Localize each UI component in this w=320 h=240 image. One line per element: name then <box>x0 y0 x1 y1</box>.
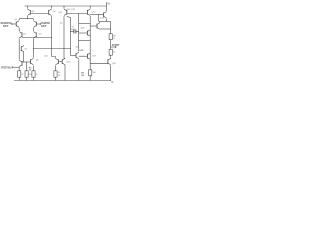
wire Q8 collector <box>27 16 29 19</box>
wire R3 to rail <box>26 77 28 81</box>
wire output to R10 <box>110 47 112 49</box>
wire C1 right lead <box>76 31 79 33</box>
label INVERTING INPUT <box>41 21 50 28</box>
wire Q16 collector column <box>78 14 80 52</box>
label OFFSET NULL <box>1 66 12 70</box>
junction dot <box>69 47 72 50</box>
wire R1 to rail <box>18 77 20 81</box>
wire Q9 collector to Q11 <box>52 57 56 59</box>
transistor Q1 <box>14 19 19 27</box>
wire Q20 base <box>90 62 108 64</box>
junction dot <box>89 5 92 8</box>
junction dot <box>25 61 28 64</box>
transistor Q11 <box>44 56 58 65</box>
resistor R3 <box>25 71 33 77</box>
wire Q20 collector <box>110 65 112 80</box>
wire Q16-Q17 link <box>79 55 88 57</box>
label V- pin <box>111 81 113 84</box>
wire R7 top <box>89 63 91 69</box>
wire Q10-Q11 base tie <box>58 61 62 63</box>
wire output lead <box>111 46 116 48</box>
svg-text:50: 50 <box>113 52 115 54</box>
resistor R1 <box>18 71 25 77</box>
junction dot <box>109 46 112 49</box>
wire Q16 base <box>71 55 77 57</box>
wire R7 to rail <box>89 76 91 81</box>
junction dot <box>77 30 80 33</box>
svg-text:INPUT: INPUT <box>3 24 8 28</box>
transistor Q7 <box>21 46 28 52</box>
junction dot <box>32 47 35 50</box>
transistor Q2 <box>34 21 37 27</box>
wire Q1 emitter <box>18 28 20 31</box>
wire Q15 collector drop <box>98 15 100 22</box>
transistor Q9 <box>49 9 57 15</box>
transistor Q18 <box>81 27 91 36</box>
wire V- rail <box>14 80 111 82</box>
wire Q18 emitter link <box>79 40 91 42</box>
label pin mark <box>60 22 63 24</box>
wire Q5 collector <box>18 59 20 61</box>
wire Q3-Q4 base <box>22 37 52 39</box>
transistor Q15 <box>97 23 100 29</box>
wire Q15 base <box>90 25 97 27</box>
wire R2 to rail <box>32 77 34 81</box>
wire Q12-Q13 base <box>67 13 88 15</box>
wire R3 top <box>26 62 28 71</box>
wire Q10 emitter <box>64 65 66 81</box>
junction dot <box>50 5 53 8</box>
svg-text:INPUT: INPUT <box>41 24 46 28</box>
wire R10 to Q20 <box>110 55 112 59</box>
junction dot <box>82 55 85 58</box>
junction dot <box>26 5 29 8</box>
wire Q2 collector <box>32 19 34 21</box>
junction dot <box>109 79 112 82</box>
wire output stage link <box>100 28 111 30</box>
resistor R2 <box>32 71 39 77</box>
transistor Q17 <box>87 53 96 59</box>
wire Q8-Q9 base <box>30 13 48 15</box>
wire Q11 emitter <box>55 66 57 71</box>
wire Q9 collector <box>51 16 53 57</box>
label C1 30pF <box>71 26 76 31</box>
wire Q18 base <box>79 32 88 34</box>
svg-text:OFFSET NULL: OFFSET NULL <box>1 66 12 70</box>
wire Q1 collector <box>18 19 20 21</box>
junction dot <box>77 39 80 42</box>
label R2 value <box>29 68 32 72</box>
wire Q5-Q6 base <box>22 61 31 63</box>
wire Q3 collector <box>18 39 20 60</box>
resistor R7 <box>89 70 97 76</box>
resistor R9 <box>109 34 115 40</box>
resistor R4 <box>54 71 61 77</box>
transistor Q10 <box>62 58 71 64</box>
transistor Q13 <box>87 9 96 15</box>
wire Q14 emitter <box>105 19 107 22</box>
wire C1 left lead <box>71 31 74 33</box>
wire Q16 emitter <box>78 59 80 80</box>
transistor Q14 <box>100 12 106 20</box>
node NON-INV input terminal <box>11 23 13 25</box>
junction dot <box>63 47 66 50</box>
label OUTPUT <box>112 43 120 47</box>
label Q12 Q13 <box>67 9 76 11</box>
node OUTPUT terminal <box>115 46 117 48</box>
wire Q10 collector <box>64 16 65 58</box>
transistor Q3 <box>19 32 26 38</box>
junction dot <box>69 30 72 33</box>
junction dot <box>22 61 25 64</box>
transistor Q6 <box>31 58 40 64</box>
svg-text:Q12 Q13: Q12 Q13 <box>67 9 76 11</box>
label V+ <box>107 3 111 6</box>
junction dot <box>77 12 80 15</box>
wire Q6 emitter <box>32 66 34 71</box>
wire Q6 collector <box>32 57 34 59</box>
junction dot <box>77 32 80 35</box>
transistor Q5 <box>19 60 22 66</box>
svg-text:(5): (5) <box>60 22 63 24</box>
junction dot <box>63 5 66 8</box>
svg-text:4.5K: 4.5K <box>79 49 84 52</box>
junction dot <box>26 17 29 20</box>
capacitor C1 <box>74 30 76 34</box>
wire Q5 emitter <box>18 67 20 70</box>
wire V+ rail <box>25 5 107 7</box>
transistor Q20 <box>108 58 117 64</box>
wire Q1-Q2 collector tie <box>19 18 33 20</box>
wire Q12 collector jog <box>67 16 71 55</box>
transistor Q16 <box>75 46 80 58</box>
wire Q8 emitter <box>27 6 29 9</box>
wire Q14 collector <box>105 6 107 11</box>
wire Q2 base <box>36 23 40 25</box>
wire Q13 to Q14 base <box>90 14 103 16</box>
label NON-INVERTING INPUT <box>1 21 12 28</box>
wire R4 to rail <box>55 77 57 81</box>
junction dot <box>97 13 100 16</box>
wire Q1 base <box>12 23 16 25</box>
svg-text:100: 100 <box>81 75 84 77</box>
transistor Q4 <box>33 32 42 38</box>
label R8 <box>81 73 84 77</box>
wire Q13 emitter <box>89 6 91 9</box>
wire offset null lead <box>12 66 19 68</box>
node OFFSET NULL terminal <box>11 66 13 68</box>
wire Q15 collector <box>99 22 101 23</box>
junction dot <box>50 36 53 39</box>
wire R9 vertical <box>110 22 112 34</box>
wire Q4/Q6 collector to Q16 <box>33 48 70 50</box>
wire Q2 emitter <box>32 28 34 31</box>
junction dot <box>18 66 21 69</box>
power V+ terminal stub <box>105 2 107 6</box>
wire R9 top link <box>99 21 111 23</box>
wire Q18 collector top link <box>79 23 91 25</box>
label R7 value <box>79 49 84 52</box>
junction dot <box>89 62 92 65</box>
wire Q17 emitter <box>89 60 91 63</box>
wire Q9 emitter <box>51 6 53 9</box>
junction dot <box>109 28 112 31</box>
wire Q12 emitter <box>63 6 65 9</box>
node INV input terminal <box>39 23 41 25</box>
wire R9 to output <box>110 40 112 47</box>
svg-text:25: 25 <box>113 38 115 40</box>
resistor R10 <box>109 49 115 55</box>
wire Q7 emitter <box>23 52 25 62</box>
transistor Q12 <box>58 9 67 15</box>
transistor Q8 <box>28 9 35 15</box>
wire Q13 collector <box>89 16 91 63</box>
svg-text:V-: V- <box>111 81 113 84</box>
wire Q4 collector <box>32 39 34 58</box>
